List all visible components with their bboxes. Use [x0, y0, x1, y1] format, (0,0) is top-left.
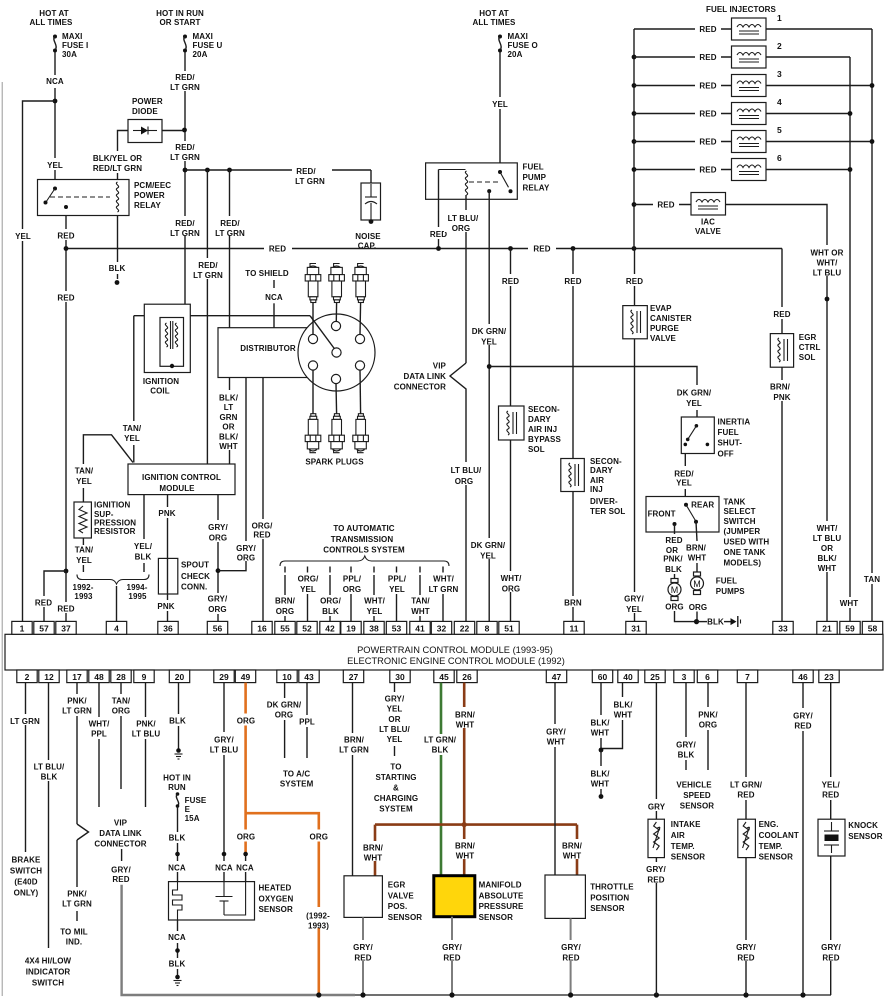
svg-text:FUEL: FUEL — [523, 163, 544, 172]
pin 2 (PCM bottom) — [17, 670, 37, 683]
svg-text:RED: RED — [502, 277, 519, 286]
ground chassis ground (HEGO) — [174, 975, 182, 986]
svg-text:PNK/: PNK/ — [136, 719, 156, 728]
wire GRY/ORG ICM to pin 56 — [203, 495, 232, 622]
svg-text:RED: RED — [647, 875, 664, 884]
svg-text:SYSTEM: SYSTEM — [280, 779, 314, 788]
svg-text:BRN/: BRN/ — [455, 710, 476, 719]
node VEHICLE SPEED SENSOR — [676, 780, 714, 810]
svg-text:TAN: TAN — [864, 575, 880, 584]
wire YEL/BLK ICM to 1994-1995 stub — [134, 495, 153, 572]
spark plug top 2 — [329, 264, 345, 303]
svg-text:BLK: BLK — [432, 745, 449, 754]
svg-text:OR START: OR START — [159, 18, 200, 27]
transformer ignition coil — [143, 304, 190, 395]
svg-text:31: 31 — [631, 624, 641, 634]
svg-text:YEL/: YEL/ — [822, 780, 841, 789]
ground BLK battery ground (fuel pumps) — [697, 616, 741, 627]
wire BLK/WHT pin 40 joins pin 60 — [601, 683, 633, 749]
svg-text:28: 28 — [116, 672, 126, 682]
svg-text:BLK: BLK — [41, 772, 58, 781]
svg-text:WHT OR: WHT OR — [810, 249, 843, 258]
wire BRN/WHT rear contact to rear pump — [686, 522, 707, 572]
svg-text:FUSE: FUSE — [185, 796, 207, 805]
svg-text:SENSOR: SENSOR — [388, 913, 423, 922]
wire YEL fuse O to fuel pump relay — [488, 52, 512, 172]
pin 31 (PCM top) — [626, 621, 646, 634]
svg-text:SENSOR: SENSOR — [680, 802, 715, 811]
svg-text:PNK: PNK — [158, 509, 175, 518]
wire ORG front pump to ground — [665, 603, 696, 622]
svg-text:MODULE: MODULE — [159, 484, 195, 493]
injector 1 — [732, 13, 783, 40]
fuse MAXI FUSE I 30A — [53, 32, 88, 59]
svg-text:YEL: YEL — [76, 556, 92, 565]
wire ORG/BLK to pin 42 — [316, 567, 345, 622]
svg-text:ELECTRONIC ENGINE CONTROL MODU: ELECTRONIC ENGINE CONTROL MODULE (1992) — [347, 656, 565, 666]
svg-text:IGNITION CONTROL: IGNITION CONTROL — [142, 473, 221, 482]
capacitor noise cap — [355, 170, 381, 251]
wire DK GRN/ORG pin 10 to A/C — [267, 683, 302, 758]
wire GRY/WHT pin 47 to throttle position sensor — [546, 683, 566, 875]
sensor manifold absolute pressure sensor (highlighted) — [434, 876, 524, 922]
svg-text:SENSOR: SENSOR — [590, 904, 625, 913]
wire RED main bus — [66, 242, 782, 254]
wire RED to pin 57 — [32, 571, 66, 622]
injector 2 — [732, 41, 783, 68]
svg-text:LT: LT — [224, 403, 233, 412]
wire WHT/ORG bypass sol to pin 51 — [496, 440, 526, 622]
fuse MAXI FUSE U 20A — [183, 32, 223, 59]
svg-text:RED/: RED/ — [296, 167, 316, 176]
svg-text:LT BLU/: LT BLU/ — [34, 762, 65, 771]
pin 48 (PCM bottom) — [89, 670, 109, 683]
svg-text:GRY: GRY — [648, 802, 666, 811]
svg-text:AIR: AIR — [590, 476, 604, 485]
svg-text:SOL: SOL — [528, 445, 545, 454]
wire NCA/BLK HEGO to ground — [168, 920, 186, 975]
pin 12 (PCM bottom) — [39, 670, 59, 683]
svg-text:GRY/: GRY/ — [546, 727, 566, 736]
svg-text:E: E — [185, 805, 191, 814]
svg-text:TO AUTOMATIC: TO AUTOMATIC — [333, 524, 394, 533]
sensor heated oxygen sensor — [169, 882, 294, 920]
svg-text:7: 7 — [745, 672, 750, 682]
svg-text:FUEL: FUEL — [718, 428, 739, 437]
svg-text:INTAKE: INTAKE — [671, 820, 701, 829]
wire WHT/YEL to pin 38 — [360, 567, 389, 622]
svg-text:NOISE: NOISE — [355, 232, 381, 241]
pin 30 (PCM bottom) — [390, 670, 410, 683]
svg-text:ORG: ORG — [665, 603, 684, 612]
svg-text:GRY/: GRY/ — [385, 694, 405, 703]
wire relay BLK coil ground — [105, 216, 129, 285]
node junction at 207 — [205, 168, 210, 173]
pin 25 (PCM bottom) — [645, 670, 665, 683]
svg-text:YEL: YEL — [300, 585, 316, 594]
node junction bus at injector bus — [632, 246, 637, 251]
pin 19 (PCM top) — [341, 621, 361, 634]
wire RED OR PNK/BLK to front fuel pump — [663, 524, 683, 580]
svg-text:LT BLU: LT BLU — [132, 729, 161, 738]
svg-text:YEL: YEL — [367, 607, 383, 616]
svg-text:GRY/: GRY/ — [736, 943, 756, 952]
svg-text:INJ: INJ — [590, 485, 603, 494]
svg-text:POWERTRAIN CONTROL MODULE (199: POWERTRAIN CONTROL MODULE (1993-95) — [357, 645, 553, 655]
svg-text:6: 6 — [777, 153, 782, 163]
wire LT BLU/BLK pin 12 to 4x4 switch — [31, 683, 68, 948]
injector 5 — [732, 125, 783, 153]
svg-text:ORG: ORG — [237, 832, 256, 841]
wire GRY/BLK pin 3 to vehicle speed sensor — [676, 683, 696, 770]
node BRAKE SWITCH (E40D ONLY) — [10, 856, 42, 898]
svg-text:19: 19 — [346, 624, 356, 634]
svg-text:RED: RED — [699, 82, 716, 91]
node junction bus row4 — [632, 111, 637, 116]
svg-text:(1992-: (1992- — [306, 911, 330, 920]
svg-text:DATA LINK: DATA LINK — [99, 829, 142, 838]
svg-text:TAN/: TAN/ — [112, 696, 131, 705]
svg-text:DARY: DARY — [590, 466, 613, 475]
svg-text:RED: RED — [822, 953, 839, 962]
svg-text:OFF: OFF — [718, 449, 734, 458]
svg-text:20A: 20A — [193, 50, 208, 59]
pin 36 (PCM top) — [158, 621, 178, 634]
svg-text:2: 2 — [25, 672, 30, 682]
pin 26 (PCM bottom) — [457, 670, 477, 683]
spark plug bottom 3 — [353, 414, 369, 453]
wire LT GRN pin 2 to brake switch — [8, 683, 43, 852]
svg-text:YEL: YEL — [387, 704, 403, 713]
svg-text:57: 57 — [39, 624, 49, 634]
svg-text:LT GRN: LT GRN — [193, 271, 223, 280]
pin 57 (PCM top) — [34, 621, 54, 634]
svg-text:DIODE: DIODE — [132, 107, 158, 116]
wire fuse I to relay, label NCA — [44, 52, 66, 180]
svg-text:45: 45 — [439, 672, 449, 682]
svg-text:NCA: NCA — [215, 864, 233, 873]
wire DK GRN/YEL to inertia fuel shutoff — [489, 367, 712, 418]
pin 38 (PCM top) — [364, 621, 384, 634]
wire RED feed injector 6 — [634, 164, 732, 175]
valve IAC valve — [691, 193, 726, 237]
svg-text:SHUT-: SHUT- — [718, 439, 743, 448]
svg-text:DK GRN/: DK GRN/ — [472, 327, 507, 336]
svg-text:RED: RED — [699, 53, 716, 62]
solenoid secondary air inj diverter sol — [561, 457, 626, 516]
svg-text:RED: RED — [354, 953, 371, 962]
svg-text:37: 37 — [61, 624, 71, 634]
svg-text:SYSTEM: SYSTEM — [379, 804, 413, 813]
wire RED/LT GRN to distributor — [213, 170, 247, 328]
svg-text:YEL: YEL — [481, 338, 497, 347]
svg-text:RED/: RED/ — [198, 261, 218, 270]
svg-text:YEL: YEL — [492, 100, 508, 109]
svg-text:GRN: GRN — [219, 413, 237, 422]
svg-text:LT GRN: LT GRN — [170, 229, 200, 238]
svg-text:HOT IN RUN: HOT IN RUN — [156, 9, 204, 18]
svg-text:SPARK PLUGS: SPARK PLUGS — [305, 458, 364, 467]
wire ORG pin 49 (orange) — [233, 683, 331, 995]
svg-text:LT GRN: LT GRN — [339, 745, 369, 754]
svg-text:ONE TANK: ONE TANK — [724, 548, 766, 557]
wire GRY/RED IAT to bus — [642, 858, 671, 995]
svg-text:16: 16 — [257, 624, 267, 634]
svg-text:LT BLU: LT BLU — [813, 534, 842, 543]
wire injector supply bus — [633, 29, 635, 249]
wire WHT/PPL pin 48 — [89, 683, 111, 807]
sensor intake air temp sensor — [648, 819, 705, 861]
sensor knock sensor — [818, 819, 883, 856]
svg-text:LT GRN/: LT GRN/ — [730, 780, 763, 789]
wire PNK spout to pin 36 — [156, 594, 179, 622]
wire TAN/YEL resistor to 1992-1993 stub — [75, 538, 94, 572]
svg-text:ORG: ORG — [276, 607, 295, 616]
svg-text:PPL: PPL — [299, 717, 315, 726]
svg-text:1993): 1993) — [308, 921, 329, 930]
svg-text:42: 42 — [325, 624, 335, 634]
svg-text:CONTROLS SYSTEM: CONTROLS SYSTEM — [323, 546, 405, 555]
svg-text:51: 51 — [504, 624, 514, 634]
switch inertia fuel shut-off — [681, 417, 750, 458]
module powertrain control module / EEC module bar — [5, 634, 883, 670]
svg-text:46: 46 — [798, 672, 808, 682]
svg-text:SWITCH: SWITCH — [724, 517, 756, 526]
wire RED feed injector 4 — [634, 108, 732, 119]
svg-text:GRY/: GRY/ — [214, 735, 234, 744]
svg-text:HEATED: HEATED — [259, 884, 292, 893]
svg-text:FUSE U: FUSE U — [193, 41, 223, 50]
svg-text:DK GRN/: DK GRN/ — [471, 541, 506, 550]
svg-text:FUSE O: FUSE O — [508, 41, 538, 50]
svg-text:TANK: TANK — [724, 497, 746, 506]
wire YEL/RED pin 23 to knock sensor — [822, 683, 841, 820]
node junction bus IAC row — [632, 202, 637, 207]
module ignition control module — [128, 464, 235, 495]
wire BRN diverter sol to pin 11 — [560, 492, 586, 622]
svg-text:LT BLU/: LT BLU/ — [379, 725, 410, 734]
svg-text:RED: RED — [665, 536, 682, 545]
svg-text:BLK: BLK — [322, 607, 339, 616]
distributor body — [218, 314, 375, 391]
node junction bus row6 — [632, 167, 637, 172]
wire PNK/LT BLU pin 9 — [132, 683, 161, 807]
wire PNK ICM to spout check conn — [156, 495, 179, 559]
pin 27 (PCM bottom) — [343, 670, 363, 683]
svg-text:BLK/: BLK/ — [590, 718, 610, 727]
pin 11 (PCM top) — [564, 621, 584, 634]
svg-text:VIP: VIP — [114, 818, 128, 827]
svg-text:HOT IN: HOT IN — [163, 773, 191, 782]
pin 46 (PCM bottom) — [793, 670, 813, 683]
solenoid EVAP canister purge valve — [623, 304, 692, 343]
svg-text:TAN/: TAN/ — [75, 546, 94, 555]
svg-text:SPOUT: SPOUT — [181, 560, 209, 569]
svg-text:LT BLU/: LT BLU/ — [451, 466, 482, 475]
solenoid EGR ctrl sol — [770, 333, 820, 367]
svg-text:MANIFOLD: MANIFOLD — [479, 881, 522, 890]
svg-text:GRY/: GRY/ — [646, 865, 666, 874]
svg-text:BYPASS: BYPASS — [528, 435, 561, 444]
wire WHT/LT GRN to pin 32 — [427, 567, 460, 622]
svg-text:STARTING: STARTING — [375, 773, 416, 782]
svg-text:1: 1 — [20, 624, 25, 634]
svg-text:SENSOR: SENSOR — [759, 853, 794, 862]
svg-text:CANISTER: CANISTER — [650, 314, 692, 323]
svg-text:GRY/: GRY/ — [208, 523, 228, 532]
pin 29 (PCM bottom) — [214, 670, 234, 683]
svg-text:RED/: RED/ — [175, 219, 195, 228]
svg-text:YEL: YEL — [124, 434, 140, 443]
relay PCM/EEC power relay — [38, 180, 172, 216]
wire RED fuel pump relay coil to bus — [426, 170, 451, 249]
svg-text:OR: OR — [222, 423, 234, 432]
wire ORG rear pump to ground — [689, 603, 708, 622]
wire YEL to pin 1 — [12, 101, 55, 622]
svg-text:YEL: YEL — [480, 552, 496, 561]
svg-text:PNK/: PNK/ — [67, 889, 87, 898]
pin 7 (PCM bottom) — [737, 670, 757, 683]
pin 6 (PCM bottom) — [697, 670, 717, 683]
wire spark plug 4 lead (bottom left) — [312, 370, 314, 414]
svg-text:32: 32 — [437, 624, 447, 634]
svg-text:CONNECTOR: CONNECTOR — [394, 383, 446, 392]
svg-text:NCA: NCA — [168, 933, 186, 942]
pin 32 (PCM top) — [431, 621, 451, 634]
svg-text:ORG: ORG — [452, 224, 471, 233]
svg-text:IND.: IND. — [66, 937, 82, 946]
svg-text:BLK/YEL OR: BLK/YEL OR — [93, 154, 142, 163]
svg-text:YEL: YEL — [47, 161, 63, 170]
svg-text:PNK: PNK — [773, 393, 790, 402]
wire GRY/ORG distributor stator branch — [218, 378, 259, 571]
wire spark plug 3 lead (top right) — [359, 303, 362, 335]
pin 56 (PCM top) — [207, 621, 227, 634]
svg-text:RED: RED — [35, 599, 52, 608]
svg-text:ORG/: ORG/ — [298, 575, 320, 584]
svg-text:GRY/: GRY/ — [821, 943, 841, 952]
wire BLK/WHT pin 60 — [590, 683, 610, 750]
svg-text:SENSOR: SENSOR — [259, 905, 294, 914]
svg-text:IGNITION: IGNITION — [143, 377, 179, 386]
svg-text:38: 38 — [369, 624, 379, 634]
svg-text:ALL TIMES: ALL TIMES — [473, 18, 517, 27]
wire BLK/LT GRN OR BLK/WHT distributor to ICM — [216, 378, 243, 465]
wire TAN/YEL coil to ignition control module — [123, 316, 142, 463]
wire RED to pin 37 — [54, 571, 78, 622]
svg-text:RED: RED — [112, 875, 129, 884]
svg-text:OXYGEN: OXYGEN — [259, 894, 294, 903]
wire LT GRN/RED pin 7 to coolant temp sensor — [730, 683, 763, 820]
svg-text:DATA LINK: DATA LINK — [403, 372, 446, 381]
wire diode left lead BLK/YEL OR RED/LT GRN to relay coil — [88, 131, 148, 180]
wire TAN outer injector bus to pin 58 — [860, 29, 885, 622]
svg-text:43: 43 — [304, 672, 314, 682]
node TO A/C SYSTEM — [280, 769, 314, 788]
pin 8 (PCM top) — [477, 621, 497, 634]
node junction RED/LT GRN distribution — [183, 168, 188, 173]
svg-text:VEHICLE: VEHICLE — [676, 780, 712, 789]
svg-text:NCA: NCA — [46, 77, 64, 86]
svg-text:YEL: YEL — [15, 232, 31, 241]
svg-text:GRY/: GRY/ — [442, 943, 462, 952]
wire RED/YEL inertia to tank select switch — [674, 454, 694, 497]
wire GRY/LT BLU pin 29 to heated oxygen sensor — [210, 683, 239, 882]
svg-text:YEL: YEL — [676, 479, 692, 488]
svg-text:BRAKE: BRAKE — [12, 856, 42, 865]
svg-text:SENSOR: SENSOR — [848, 832, 883, 841]
wire GRY/RED pin 46 direct to bus — [793, 683, 813, 995]
wire spark plug 1 lead (top left) — [312, 303, 314, 335]
svg-text:PPL/: PPL/ — [388, 575, 407, 584]
svg-text:27: 27 — [349, 672, 359, 682]
svg-text:LT GRN: LT GRN — [62, 706, 92, 715]
svg-text:1995: 1995 — [128, 592, 147, 601]
svg-text:6: 6 — [705, 672, 710, 682]
wire GRY pin 25 to intake air temp sensor — [643, 683, 670, 820]
svg-text:SPEED: SPEED — [683, 791, 711, 800]
svg-text:OR: OR — [821, 544, 833, 553]
svg-text:BRN/: BRN/ — [770, 383, 791, 392]
svg-text:WHT/: WHT/ — [817, 524, 839, 533]
node junction NCA/YEL — [53, 99, 58, 104]
node junction bus row5 — [632, 139, 637, 144]
wire WHT inner injector bus to pin 59 — [836, 57, 863, 622]
svg-text:TO SHIELD: TO SHIELD — [245, 269, 289, 278]
svg-text:LT GRN: LT GRN — [10, 717, 40, 726]
svg-text:INERTIA: INERTIA — [718, 417, 751, 426]
svg-text:60: 60 — [598, 672, 608, 682]
svg-text:GRY/: GRY/ — [208, 595, 228, 604]
wire BRN/LT GRN pin 27 to EGR valve pos sensor — [339, 683, 369, 876]
wire injector 1 return to outer bus — [766, 28, 872, 30]
pin 10 (PCM bottom) — [277, 670, 297, 683]
svg-text:48: 48 — [94, 672, 104, 682]
wire GRY/YEL purge valve to pin 31 — [620, 339, 650, 622]
svg-text:30A: 30A — [62, 50, 77, 59]
node HOT AT ALL TIMES (left) — [30, 9, 74, 27]
wire TAN/YEL branch to ignition suppression resistor — [75, 435, 133, 502]
svg-text:BLK: BLK — [169, 833, 186, 842]
svg-text:EGR: EGR — [388, 881, 406, 890]
svg-text:30: 30 — [395, 672, 405, 682]
wire injector 4 return — [766, 113, 850, 115]
svg-text:NCA: NCA — [168, 864, 186, 873]
svg-text:52: 52 — [302, 624, 312, 634]
svg-text:RED: RED — [57, 232, 74, 241]
wire BLK fuse E to heated oxygen sensor — [165, 806, 190, 882]
injector 6 — [732, 153, 783, 181]
svg-text:BLK: BLK — [169, 960, 186, 969]
pin 60 (PCM bottom) — [592, 670, 612, 683]
svg-text:BLK: BLK — [109, 264, 126, 273]
svg-text:WHT: WHT — [563, 851, 582, 860]
injector 3 — [732, 69, 783, 97]
svg-text:KNOCK: KNOCK — [848, 821, 878, 830]
svg-text:1: 1 — [777, 13, 782, 23]
sensor throttle position sensor — [545, 875, 634, 918]
wire GRY/RED knock sensor to bus end — [817, 856, 845, 995]
wire injector 3 return — [766, 85, 872, 87]
svg-text:20: 20 — [175, 672, 185, 682]
svg-text:ABSOLUTE: ABSOLUTE — [479, 891, 524, 900]
svg-text:ALL TIMES: ALL TIMES — [30, 18, 74, 27]
svg-text:TO: TO — [390, 762, 401, 771]
svg-text:GRY/: GRY/ — [793, 711, 813, 720]
svg-text:ORG: ORG — [455, 477, 474, 486]
svg-text:12: 12 — [44, 672, 54, 682]
wire LT BLU/ORG relay coil to pin 22 with VIP data link connector — [444, 195, 484, 622]
